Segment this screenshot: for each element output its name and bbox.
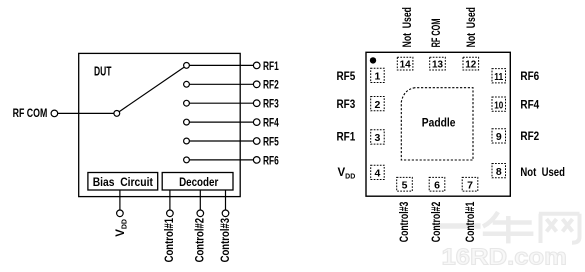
svg-text:11: 11 [494, 71, 503, 83]
wire VDD [119, 190, 121, 210]
wire Control#1 [169, 190, 171, 210]
svg-text:2: 2 [374, 99, 380, 111]
svg-text:RF1: RF1 [263, 61, 279, 73]
RF3 terminal [253, 100, 260, 107]
pin 9 pad [492, 129, 506, 143]
switch contact RF3 [184, 100, 190, 106]
pin 4 pad [371, 165, 385, 179]
watermark 牛 [483, 212, 534, 243]
pin 3 pad [371, 130, 385, 144]
svg-text:RF COM: RF COM [431, 19, 443, 48]
watermark 网 [539, 214, 580, 243]
wire RF3 [189, 102, 253, 104]
wire RF COM to switch pole [58, 112, 114, 114]
RF1 terminal [253, 62, 260, 69]
svg-text:RF COM: RF COM [13, 108, 48, 120]
svg-text:3: 3 [374, 132, 380, 144]
svg-text:Control#3: Control#3 [220, 218, 232, 263]
wire Control#2 [199, 190, 201, 210]
svg-text:RF5: RF5 [337, 71, 356, 83]
pin 12 pad [463, 57, 479, 70]
svg-text:RF2: RF2 [263, 80, 279, 92]
svg-text:RF5: RF5 [263, 136, 279, 148]
pin 13 pad [430, 57, 446, 70]
svg-text:5: 5 [402, 180, 408, 192]
svg-text:RF6: RF6 [263, 155, 279, 167]
pin 1 indicator dot [370, 57, 376, 63]
switch contact RF2 [184, 81, 190, 87]
wire RF5 [189, 140, 253, 142]
Control#1 terminal [167, 210, 174, 217]
svg-text:DUT: DUT [94, 64, 112, 79]
svg-text:8: 8 [496, 166, 502, 178]
switch pole node [114, 111, 120, 117]
switch contact RF5 [184, 138, 190, 144]
wire Control#3 [225, 190, 227, 210]
svg-text:RF4: RF4 [263, 118, 279, 130]
paddle [401, 88, 473, 160]
svg-text:Control#1: Control#1 [465, 201, 477, 242]
switch contact RF6 [184, 157, 190, 163]
svg-text:Bias Circuit: Bias Circuit [93, 177, 153, 189]
svg-text:9: 9 [496, 131, 502, 143]
svg-text:RF3: RF3 [263, 99, 279, 111]
svg-text:10: 10 [494, 99, 503, 111]
Control#2 terminal [197, 210, 204, 217]
svg-text:6: 6 [434, 180, 440, 192]
svg-text:13: 13 [432, 59, 443, 71]
switch contact RF4 [184, 119, 190, 125]
wire RF1 [189, 64, 253, 66]
Decoder block [162, 173, 233, 191]
svg-text:Control#3: Control#3 [399, 202, 411, 243]
svg-text:Decoder: Decoder [179, 177, 219, 189]
wire RF2 [189, 83, 253, 85]
svg-text:Control#2: Control#2 [431, 202, 443, 243]
VDD terminal [117, 210, 124, 217]
svg-text:RF6: RF6 [520, 71, 539, 83]
svg-text:4: 4 [374, 168, 380, 180]
pin 1 pad [371, 68, 385, 82]
package outline [366, 52, 510, 196]
RF5 terminal [253, 138, 260, 145]
RF2 terminal [253, 81, 260, 88]
svg-text:Control#1: Control#1 [164, 217, 176, 262]
RF4 terminal [253, 119, 260, 126]
pin 11 pad [492, 69, 506, 83]
svg-text:Not Used: Not Used [402, 7, 414, 47]
Control#3 terminal [222, 210, 229, 217]
svg-text:RF3: RF3 [337, 99, 356, 111]
svg-text:RF4: RF4 [520, 99, 539, 111]
pin 14 pad [397, 57, 413, 70]
RF COM terminal [51, 110, 58, 117]
wire RF6 [189, 159, 253, 161]
svg-text:1: 1 [374, 71, 380, 83]
svg-text:14: 14 [400, 59, 411, 71]
svg-text:Control#2: Control#2 [195, 218, 207, 263]
pin 6 pad [429, 177, 445, 191]
svg-text:16RD.com: 16RD.com [442, 244, 568, 268]
svg-text:RF2: RF2 [520, 131, 539, 143]
svg-text:Not Used: Not Used [466, 7, 478, 47]
svg-text:RF1: RF1 [337, 132, 356, 144]
pin 7 pad [462, 177, 478, 191]
svg-text:Paddle: Paddle [422, 117, 456, 129]
RF6 terminal [253, 157, 260, 164]
Bias Circuit block [88, 173, 158, 191]
svg-text:7: 7 [467, 180, 473, 192]
pin 10 pad [492, 97, 506, 111]
DUT block [79, 53, 241, 196]
wire RF4 [189, 121, 253, 123]
svg-text:12: 12 [465, 59, 476, 71]
switch arm (pole to RF1 contact) [119, 67, 184, 112]
pin 2 pad [371, 97, 385, 111]
svg-text:Not Used: Not Used [520, 167, 565, 179]
switch contact RF1 [184, 63, 190, 69]
pin 8 pad [492, 164, 506, 178]
watermark 一 [436, 223, 481, 229]
pin 5 pad [397, 177, 413, 191]
